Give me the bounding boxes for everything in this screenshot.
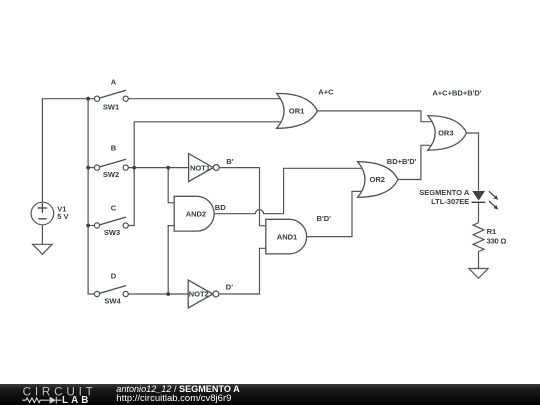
svg-text:AND2: AND2	[186, 209, 206, 218]
svg-text:B: B	[111, 143, 117, 152]
svg-text:SW3: SW3	[104, 228, 120, 237]
svg-text:A: A	[111, 77, 117, 86]
svg-text:SW4: SW4	[104, 296, 121, 305]
svg-text:R1: R1	[487, 227, 497, 236]
svg-text:D: D	[111, 271, 117, 280]
svg-text:D': D'	[226, 283, 233, 292]
svg-text:NOT1: NOT1	[190, 163, 210, 172]
svg-text:BD: BD	[215, 203, 226, 212]
svg-text:C: C	[111, 203, 117, 212]
svg-text:B'D': B'D'	[317, 214, 332, 223]
svg-text:OR1: OR1	[289, 106, 304, 115]
svg-text:LAB: LAB	[62, 395, 91, 405]
svg-text:OR2: OR2	[369, 175, 384, 184]
svg-text:SEGMENTO A: SEGMENTO A	[419, 188, 470, 197]
svg-text:OR3: OR3	[438, 129, 453, 138]
svg-text:http://circuitlab.com/cv8j6r9: http://circuitlab.com/cv8j6r9	[116, 393, 231, 404]
svg-text:LTL-307EE: LTL-307EE	[431, 197, 469, 206]
svg-text:A+C+BD+B'D': A+C+BD+B'D'	[432, 88, 481, 97]
svg-text:B': B'	[226, 157, 233, 166]
svg-text:BD+B'D': BD+B'D'	[387, 157, 417, 166]
svg-text:330 Ω: 330 Ω	[487, 236, 507, 245]
svg-text:AND1: AND1	[277, 232, 297, 241]
svg-text:SW2: SW2	[103, 170, 119, 179]
svg-text:SW1: SW1	[103, 103, 119, 112]
svg-text:NOT2: NOT2	[189, 290, 209, 299]
svg-text:A+C: A+C	[318, 88, 334, 97]
svg-text:5 V: 5 V	[57, 212, 68, 221]
